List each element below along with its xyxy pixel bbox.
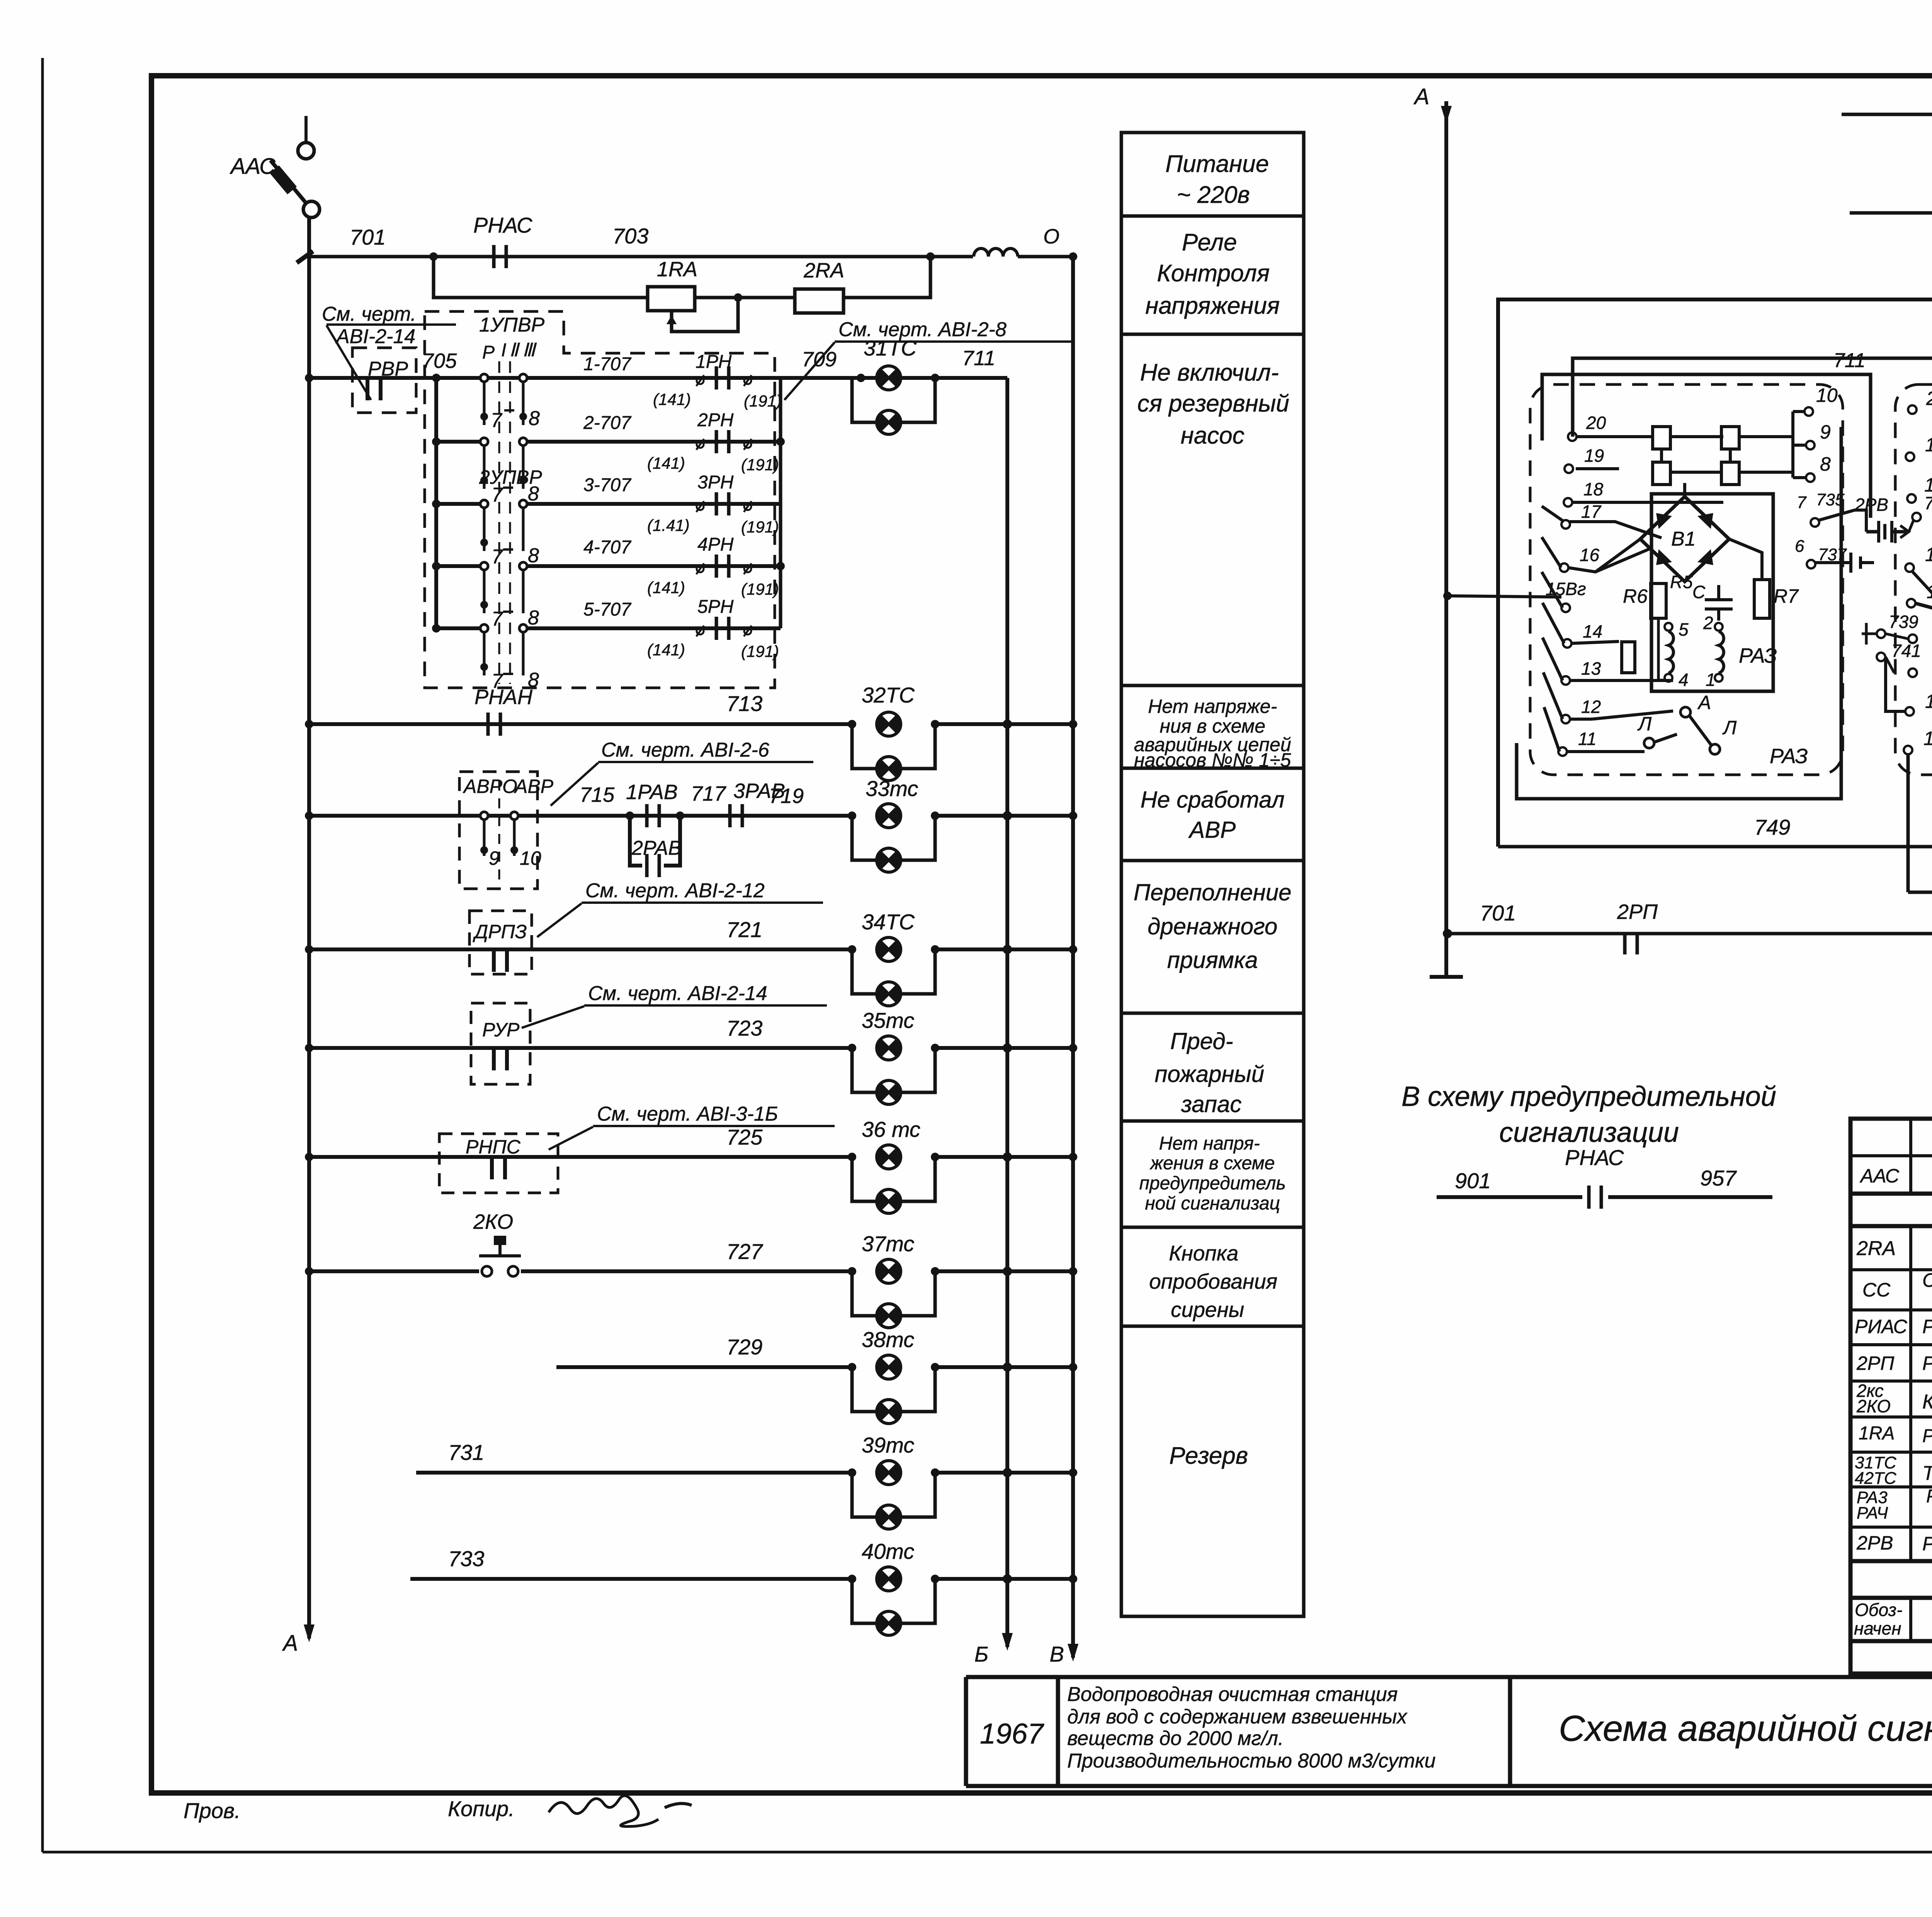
svg-text:725: 725 [726, 1125, 763, 1149]
svg-text:2RА: 2RА [1856, 1237, 1896, 1260]
dashed box UPVR contact bank [425, 311, 775, 688]
svg-text:1: 1 [1706, 670, 1716, 690]
svg-text:18: 18 [1924, 474, 1932, 496]
svg-text:12: 12 [1581, 697, 1601, 717]
bus A right schematic [1413, 84, 1463, 977]
dashed relay box РАЗ [1530, 384, 1843, 775]
svg-text:РНАС: РНАС [473, 213, 532, 237]
svg-text:Табло двухламповое: Табло двухламповое [1922, 1462, 1932, 1485]
legend box: Реле Контроля напряжения [1145, 229, 1280, 319]
svg-text:8: 8 [528, 483, 539, 505]
svg-text:1РН: 1РН [696, 352, 732, 372]
svg-text:(141): (141) [647, 578, 685, 597]
contact 2РН [696, 430, 752, 453]
wire rung 729 [556, 1335, 852, 1367]
callout См. черт. АВI-3-16 [549, 1103, 835, 1150]
wire row2 707 [436, 410, 781, 474]
svg-text:АВРО: АВРО [463, 776, 517, 797]
wire 713 tail [935, 720, 1077, 729]
wire 901-957 [1437, 1145, 1772, 1209]
wire 711 inner riser [1542, 349, 1871, 518]
contact ДРПЗ [494, 948, 507, 972]
annotation Копир with signature [448, 1796, 692, 1827]
svg-text:34ТС: 34ТС [862, 910, 915, 934]
dashed box РВР [352, 348, 416, 413]
svg-text:12: 12 [1925, 691, 1932, 712]
svg-text:703: 703 [612, 224, 648, 248]
table row РА3 РАЧ [1857, 1486, 1932, 1525]
wire 723 tail [935, 1043, 1077, 1053]
svg-text:741: 741 [1891, 641, 1921, 661]
svg-text:739: 739 [1889, 612, 1918, 632]
svg-text:16: 16 [1580, 545, 1600, 565]
wire rung 731 [416, 1440, 852, 1473]
svg-text:7: 7 [492, 484, 503, 506]
wire 725 tail [935, 1152, 1077, 1162]
table column headers [1854, 1599, 1932, 1641]
svg-text:38тс: 38тс [862, 1327, 914, 1352]
svg-text:(141): (141) [647, 454, 685, 472]
legend column (signal descriptions) [1121, 133, 1304, 1616]
svg-text:Резистор регулируемые: Резистор регулируемые [1922, 1426, 1932, 1446]
svg-text:727: 727 [726, 1239, 763, 1264]
svg-text:2РП: 2РП [1617, 900, 1658, 924]
bus В vertical [1049, 257, 1078, 1666]
dashed relay box РАЧ [1895, 384, 1932, 775]
svg-text:1УПВР: 1УПВР [479, 314, 545, 336]
callout См. черт. АВI-2-6 [551, 739, 813, 806]
wire rung 713 [305, 685, 852, 728]
svg-text:Б: Б [975, 1642, 988, 1666]
svg-text:R5: R5 [1670, 572, 1693, 592]
svg-text:36 тс: 36 тс [862, 1117, 920, 1141]
svg-text:39тс: 39тс [862, 1433, 914, 1457]
equipment table grid [1850, 1119, 1932, 1674]
svg-text:2-707: 2-707 [583, 413, 632, 433]
legend box: Нет напряжения в схеме предупредительной сигнализации [1139, 1133, 1286, 1214]
contact 7-735 [1797, 490, 1866, 532]
svg-text:7: 7 [1797, 493, 1807, 512]
svg-text:11: 11 [1923, 728, 1932, 749]
callout См. черт. АВI-2-14 lower [522, 982, 827, 1028]
table row 2РВ [1856, 1532, 1932, 1555]
svg-text:18: 18 [1583, 479, 1604, 499]
svg-text:8: 8 [1820, 453, 1831, 475]
contact 5РН [696, 617, 752, 640]
wire pin11 row [1567, 711, 1673, 752]
resistor R6 [1623, 572, 1693, 618]
svg-text:веществ до 2000 мг/л.: веществ до 2000 мг/л. [1067, 1727, 1284, 1750]
contact РУР [494, 1046, 507, 1070]
svg-text:723: 723 [726, 1016, 762, 1040]
legend box: Не сработал АВР [1140, 787, 1284, 843]
svg-text:2КО: 2КО [473, 1210, 513, 1233]
svg-text:20: 20 [1926, 388, 1932, 409]
svg-text:Контроля: Контроля [1157, 260, 1270, 287]
svg-text:13: 13 [1581, 658, 1601, 679]
node 709 [802, 348, 865, 382]
wire box bottom link [1517, 427, 1841, 799]
lamp pair 39ТС [848, 1433, 939, 1529]
wire 1RA tap loop [668, 293, 742, 332]
coil РНАС (node O) [974, 225, 1077, 261]
wire rung 733 [410, 1546, 852, 1579]
coil winding 5-4 [1658, 618, 1689, 690]
contact row2 2УПВР [480, 438, 539, 506]
lamp pair 41ТС [1842, 75, 1932, 174]
svg-text:(141): (141) [647, 641, 685, 659]
svg-text:О: О [1043, 225, 1060, 248]
bank right collector wire [776, 378, 785, 628]
svg-text:1RА: 1RА [1859, 1423, 1895, 1444]
svg-text:См. черт. АВI-3-1Б: См. черт. АВI-3-1Б [597, 1103, 778, 1125]
svg-text:R6: R6 [1623, 585, 1648, 607]
svg-text:ся резервный: ся резервный [1137, 390, 1289, 417]
svg-text:11: 11 [1578, 729, 1597, 749]
wire row1 707 [527, 352, 852, 410]
svg-text:743: 743 [1924, 493, 1932, 513]
wire 733 tail [935, 1574, 1077, 1584]
wire row5 707 [436, 597, 781, 660]
relay РАЗ left pins [1558, 432, 1577, 756]
table row 2КС 2КО [1856, 1381, 1932, 1416]
svg-text:957: 957 [1700, 1166, 1737, 1190]
svg-text:2РВ: 2РВ [1856, 1532, 1893, 1554]
svg-text:Схема аварийной сигнализации: Схема аварийной сигнализации. [1559, 1708, 1932, 1749]
АВР dashed separators [498, 781, 500, 885]
svg-text:42ТС: 42ТС [1855, 1469, 1897, 1488]
svg-text:5РН: 5РН [697, 597, 734, 617]
svg-text:Водопроводная очистная станция: Водопроводная очистная станция [1067, 1683, 1398, 1706]
dashed box РНПС [439, 1134, 558, 1193]
svg-text:Копир.: Копир. [448, 1796, 515, 1821]
wire 731 tail [935, 1468, 1077, 1477]
svg-text:717: 717 [691, 782, 726, 805]
svg-text:2РН: 2РН [697, 410, 734, 430]
svg-text:А: А [1413, 84, 1430, 109]
capacitor C [1692, 582, 1733, 621]
legend box: Питание ~220в [1165, 151, 1269, 208]
svg-text:РНАН: РНАН [474, 685, 533, 709]
wire 749 [1498, 800, 1932, 851]
svg-text:Резерв: Резерв [1169, 1442, 1248, 1469]
svg-text:Питание: Питание [1165, 151, 1269, 177]
svg-text:запас: запас [1181, 1091, 1242, 1117]
svg-text:Кнопка: Кнопка [1169, 1241, 1238, 1265]
contact 1РН [696, 366, 752, 390]
table row ААС [1859, 1154, 1932, 1194]
table row 2РП [1856, 1352, 1932, 1375]
contact 2РАВ [647, 854, 659, 877]
lamp pair 33тс [848, 776, 939, 872]
svg-text:31ТС: 31ТС [864, 336, 917, 360]
svg-text:Пров.: Пров. [184, 1798, 241, 1823]
svg-text:1-707: 1-707 [583, 354, 632, 374]
dashed box АВР [459, 772, 554, 889]
svg-text:721: 721 [726, 917, 762, 942]
contact 6-737 [1795, 537, 1874, 573]
svg-text:напряжения: напряжения [1145, 293, 1280, 319]
svg-text:(191): (191) [744, 392, 782, 410]
contact РВР [367, 376, 381, 400]
svg-text:4: 4 [1679, 670, 1689, 690]
wire РАЧ 15 to bus B [1913, 572, 1932, 615]
table row СС [1862, 1269, 1932, 1308]
svg-text:5-707: 5-707 [583, 599, 632, 620]
lamp pair 31ТС [852, 336, 939, 434]
bank dashed separators [499, 361, 510, 684]
small resistor lower [1622, 642, 1635, 673]
title project description [1067, 1683, 1435, 1772]
svg-text:РАЧ: РАЧ [1857, 1504, 1888, 1522]
diode bridge В1 [1640, 497, 1729, 582]
svg-text:ДРПЗ: ДРПЗ [473, 921, 527, 942]
labels 715 1РАВ 717 3РАВ 719 [580, 779, 804, 808]
svg-text:(191): (191) [741, 580, 779, 598]
svg-text:А: А [1697, 692, 1711, 713]
svg-text:РНАС: РНАС [1565, 1145, 1624, 1170]
svg-text:(191): (191) [741, 518, 779, 536]
svg-text:Не включил-: Не включил- [1140, 359, 1279, 386]
svg-text:729: 729 [726, 1335, 762, 1359]
svg-text:См. черт. АВI-2-12: См. черт. АВI-2-12 [585, 879, 765, 902]
svg-text:РИАС: РИАС [1855, 1316, 1908, 1337]
lamp pair 32ТС [848, 683, 939, 781]
svg-text:2РВ: 2РВ [1854, 495, 1888, 515]
svg-text:Реле времени: Реле времени [1922, 1533, 1932, 1555]
svg-text:10: 10 [520, 847, 541, 869]
svg-text:9: 9 [1820, 421, 1831, 443]
РАЧ left pin labels [1923, 388, 1932, 749]
svg-text:701: 701 [1480, 901, 1516, 925]
resistor 2RA [795, 259, 844, 313]
svg-text:3-707: 3-707 [583, 475, 632, 495]
wire rung 725 [305, 1125, 852, 1161]
svg-text:РАЗ: РАЗ [1739, 644, 1777, 667]
svg-text:2РАВ: 2РАВ [631, 837, 682, 859]
svg-text:(191): (191) [741, 642, 779, 660]
lamp pair 37ТС [848, 1232, 939, 1328]
svg-text:пожарный: пожарный [1155, 1061, 1264, 1087]
contact 3РН [696, 492, 752, 515]
contact РНПС [492, 1155, 505, 1179]
svg-text:4РН: 4РН [697, 534, 734, 555]
svg-text:Реле промежуточное: Реле промежуточное [1922, 1316, 1932, 1337]
legend box: Кнопка опробования сирены [1149, 1241, 1277, 1322]
wire row3 707 [436, 472, 781, 536]
dashed box РУР [471, 1003, 530, 1084]
collector bus Б [975, 378, 1013, 1666]
callout Cм. черт. АВI-2-14 upper [322, 303, 456, 400]
junction on bus A for pin15 wire [1443, 592, 1452, 600]
switch contacts А Л [1637, 692, 1737, 754]
wire pin20 riser [1573, 358, 1932, 437]
legend box: Переполнение дренажного приямка [1134, 879, 1292, 973]
contact РНАН [488, 713, 500, 736]
svg-text:(141): (141) [653, 390, 691, 408]
svg-text:711: 711 [1833, 349, 1866, 372]
svg-text:АВР: АВР [1188, 817, 1236, 843]
svg-text:для вод с содержанием взвешенн: для вод с содержанием взвешенных [1067, 1706, 1408, 1728]
callout См. черт. АВI-2-12 [537, 879, 823, 937]
node junction 701 [429, 252, 438, 261]
node junction 703 [926, 252, 935, 261]
table row 31ТС 42ТС [1855, 1453, 1932, 1488]
svg-text:А: А [282, 1631, 298, 1656]
lamp pair 35ТС [848, 1008, 939, 1104]
svg-text:3РН: 3РН [697, 472, 734, 493]
svg-text:ААС: ААС [1859, 1165, 1900, 1187]
svg-text:АВР: АВР [514, 776, 554, 797]
bus A-left vertical [282, 216, 315, 1656]
wire bridge to box [1595, 483, 1762, 580]
svg-text:Нет напря-: Нет напря- [1159, 1133, 1260, 1154]
svg-text:сирены: сирены [1171, 1298, 1244, 1322]
lamp pair 42ТС [1850, 175, 1932, 271]
table row 2RA [1856, 1237, 1932, 1260]
svg-text:749: 749 [1754, 815, 1790, 839]
outer page border left [41, 58, 44, 1852]
label Р I II III [482, 340, 537, 363]
button 2КО [305, 1210, 852, 1276]
svg-text:Р: Р [482, 342, 495, 363]
wire 2РАВ bypass [630, 816, 682, 866]
svg-text:Производительностью 8000 м3/су: Производительностью 8000 м3/сутки [1067, 1750, 1435, 1772]
svg-text:20: 20 [1586, 413, 1606, 433]
coil winding 2-1 [1703, 613, 1724, 690]
svg-text:5: 5 [1679, 619, 1689, 640]
svg-text:жения в схеме: жения в схеме [1150, 1153, 1275, 1174]
wire 719 tail [935, 811, 1077, 820]
svg-text:Реле промежуточное: Реле промежуточное [1922, 1352, 1932, 1374]
svg-text:Л: Л [1637, 713, 1652, 735]
contact АВРО-АВР [480, 812, 541, 869]
contact 1РАВ [626, 804, 684, 827]
lamp pair 38ТС [848, 1327, 939, 1424]
svg-text:6: 6 [1795, 537, 1804, 556]
svg-text:1967: 1967 [980, 1718, 1044, 1750]
contact row4 [480, 562, 539, 630]
svg-text:19: 19 [1584, 446, 1604, 466]
wire 721 tail [935, 945, 1077, 954]
svg-text:16: 16 [1925, 544, 1932, 565]
svg-text:Реле импульсной: Реле импульсной [1926, 1486, 1932, 1507]
svg-text:19: 19 [1925, 434, 1932, 456]
note В схему предупредительной сигнализации [1401, 1081, 1776, 1148]
svg-text:Пред-: Пред- [1170, 1028, 1233, 1054]
relay РАЧ left pins [1904, 405, 1917, 754]
svg-text:1РАВ: 1РАВ [626, 781, 678, 804]
svg-text:35тс: 35тс [862, 1008, 914, 1032]
svg-text:Обоз-: Обоз- [1855, 1600, 1902, 1620]
wire 711 to collector [935, 347, 1007, 378]
breaker AAC [230, 116, 320, 218]
svg-text:ной сигнализац: ной сигнализац [1145, 1193, 1280, 1214]
bank left collector wire [432, 374, 440, 633]
svg-text:В1: В1 [1671, 528, 1696, 550]
svg-text:сигнализации: сигнализации [1499, 1117, 1679, 1148]
svg-text:АВI-2-14: АВI-2-14 [335, 325, 415, 348]
svg-text:1RА: 1RА [657, 258, 697, 281]
svg-text:2: 2 [1703, 613, 1713, 633]
svg-text:(191): (191) [741, 456, 779, 474]
contact row 1УПВР switch [480, 374, 540, 432]
svg-text:10: 10 [1816, 384, 1838, 406]
svg-text:~ 220в: ~ 220в [1177, 182, 1250, 208]
svg-text:2КО: 2КО [1856, 1396, 1891, 1416]
wire rung 723 [305, 1016, 852, 1052]
table row 1RA [1859, 1423, 1932, 1446]
svg-text:Ⅲ: Ⅲ [522, 340, 537, 361]
svg-text:В схему предупредительной: В схему предупредительной [1401, 1081, 1776, 1112]
wire 701-703 top rail [309, 224, 973, 257]
svg-text:Л: Л [1722, 717, 1737, 738]
legend box: Предпожарный запас [1155, 1028, 1264, 1117]
svg-text:705: 705 [422, 349, 457, 373]
contact 2РП [1625, 935, 1637, 954]
svg-text:7: 7 [492, 608, 503, 630]
contact 3РАВ [730, 804, 742, 827]
svg-text:719: 719 [769, 784, 804, 808]
svg-text:33тс: 33тс [866, 776, 918, 801]
svg-text:Кнопка управления: Кнопка управления [1922, 1391, 1932, 1413]
lamp pair 34ТС [848, 910, 939, 1006]
wire 701-753 bottom [1443, 900, 1932, 939]
svg-text:С: С [1692, 582, 1706, 602]
svg-text:начен: начен [1854, 1618, 1901, 1638]
wire row4 707 [436, 534, 781, 598]
svg-text:40тс: 40тс [862, 1539, 914, 1563]
svg-text:8: 8 [528, 544, 539, 567]
svg-text:14: 14 [1583, 621, 1602, 641]
svg-text:37тс: 37тс [862, 1232, 914, 1256]
resistor 1RA [648, 258, 697, 311]
svg-text:32ТС: 32ТС [862, 683, 915, 707]
resistor grid top РАЗ [1653, 427, 1793, 485]
svg-text:2RА: 2RА [803, 259, 844, 282]
svg-text:приямка: приямка [1167, 947, 1258, 973]
svg-text:РАЗ: РАЗ [1770, 745, 1808, 768]
wire 729 tail [935, 1362, 1077, 1372]
contact row5 [480, 624, 539, 692]
svg-text:опробования: опробования [1149, 1269, 1277, 1293]
contact 739 [1862, 612, 1921, 673]
wire 751 [1908, 858, 1932, 896]
contact row3 [480, 500, 539, 568]
svg-text:7: 7 [491, 409, 503, 432]
svg-text:713: 713 [726, 691, 762, 716]
svg-text:Не сработал: Не сработал [1140, 787, 1284, 813]
dashed box ДРПЗ [469, 911, 532, 974]
table row РИАС [1855, 1315, 1932, 1338]
wire 727 tail [935, 1267, 1077, 1276]
lamp pair 36ТС [848, 1117, 939, 1213]
resistor R7 [1754, 580, 1799, 618]
svg-text:РУР: РУР [482, 1019, 520, 1041]
svg-text:2РП: 2РП [1856, 1352, 1895, 1374]
svg-text:Сирена аварийной: Сирена аварийной [1922, 1269, 1932, 1291]
wires РАЗ pin fan [1447, 437, 1723, 752]
wire 711 feeder [1498, 114, 1932, 847]
svg-text:8: 8 [528, 607, 539, 629]
svg-text:17: 17 [1581, 502, 1602, 522]
lamp pair 40ТС [848, 1539, 939, 1635]
svg-text:R7: R7 [1774, 585, 1799, 607]
svg-text:(1.41): (1.41) [647, 516, 690, 534]
wire resistor branch [434, 257, 930, 298]
svg-text:РНПС: РНПС [466, 1136, 521, 1158]
svg-text:I: I [501, 340, 506, 361]
